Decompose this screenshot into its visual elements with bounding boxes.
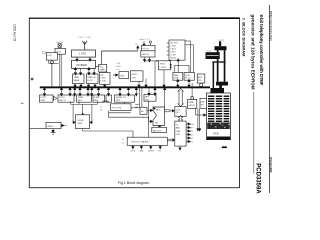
svg-text:LATCH: LATCH — [188, 104, 195, 107]
wire dtmf gen down to output — [82, 129, 84, 131]
box R reset — [55, 48, 66, 54]
pin circle — [50, 61, 53, 64]
wire volume to mux lower input — [109, 116, 149, 118]
svg-text:EEP: EEP — [198, 77, 203, 79]
svg-text:generator and 128 bytes EEPROM: generator and 128 bytes EEPROM — [251, 15, 256, 90]
data latch box below bus — [188, 99, 197, 108]
test box — [159, 61, 171, 70]
svg-text:Product specification: Product specification — [269, 157, 273, 173]
output stage wide box — [127, 137, 167, 145]
svg-text:CPU: CPU — [132, 77, 137, 79]
wire volume box to ML — [131, 107, 140, 109]
title underline rule (rotated) — [253, 92, 255, 174]
signal stub — [186, 123, 189, 125]
svg-text:8-BIT: 8-BIT — [41, 100, 47, 102]
wire bus to mux top — [164, 88, 166, 107]
stubs below P2 — [144, 57, 146, 61]
vref box — [46, 122, 61, 128]
svg-text:KBD: KBD — [201, 101, 206, 103]
wire data latch to connector — [195, 108, 197, 115]
svg-text:VOL CTRL: VOL CTRL — [112, 107, 123, 109]
svg-text:sec: sec — [135, 43, 138, 45]
wire b7 down to output stage — [148, 101, 150, 137]
svg-text:DP: DP — [190, 128, 193, 130]
register box b3 — [77, 95, 92, 102]
time base block — [73, 74, 85, 84]
svg-text:MUTE: MUTE — [148, 150, 154, 152]
bus arrow — [98, 88, 100, 95]
svg-text:DOG: DOG — [88, 80, 93, 82]
box L power-on — [46, 53, 57, 61]
wire ml to mux — [147, 109, 152, 111]
dtmf generator box — [75, 115, 89, 129]
svg-text:IO INT: IO INT — [170, 54, 177, 56]
svg-text:REG: REG — [78, 100, 83, 102]
svg-text:TN: TN — [190, 138, 193, 140]
svg-text:LATCH: LATCH — [59, 99, 66, 102]
svg-text:2 IN B: 2 IN B — [170, 48, 176, 50]
wire to dtmf gen top — [82, 104, 84, 114]
bottom stem — [219, 86, 222, 90]
arrow divider to watchdog — [88, 68, 90, 74]
svg-text:TIME: TIME — [74, 77, 80, 79]
svg-text:Fig.1 Block diagram.: Fig.1 Block diagram. — [118, 181, 150, 185]
arrow rom to bus — [188, 80, 190, 86]
svg-text:MELODY: MELODY — [153, 130, 162, 132]
svg-text:Philips Semiconductors: Philips Semiconductors — [269, 11, 273, 41]
svg-text:P2 I/O: P2 I/O — [143, 48, 149, 50]
stubs below output stage — [132, 145, 134, 148]
svg-text:WATCH: WATCH — [88, 76, 96, 79]
ladder leg right — [224, 50, 226, 81]
svg-text:VO: VO — [190, 142, 193, 144]
svg-text:cntr: cntr — [117, 68, 121, 71]
arrow time base to bus — [74, 84, 76, 87]
svg-text:2 IN C: 2 IN C — [170, 51, 176, 53]
svg-text:CTRL: CTRL — [100, 78, 106, 80]
io stage bottom stub — [179, 146, 181, 149]
arrows into test logic box — [169, 64, 171, 66]
pin stub with circle — [149, 41, 151, 43]
bus arrow — [44, 88, 46, 95]
triangle glyph — [54, 96, 57, 100]
connector base bar — [207, 137, 230, 140]
tiny label under b7 — [135, 104, 138, 105]
svg-text:2AB: 2AB — [139, 149, 143, 152]
wire pair to ML box — [139, 88, 141, 107]
wire b4 down — [96, 101, 98, 104]
bus arrow — [108, 88, 110, 95]
svg-text:4: 4 — [20, 102, 24, 104]
pin circle above data latch — [191, 97, 194, 100]
addr latch box below bus — [200, 98, 208, 108]
tiny label near time base — [31, 78, 34, 80]
svg-text:I/O: I/O — [176, 124, 179, 126]
svg-text:Cable 1 1 4: Cable 1 1 4 — [139, 39, 150, 41]
register box b7 — [144, 95, 156, 102]
svg-text:TEST: TEST — [160, 64, 166, 66]
register box b4 — [93, 95, 105, 102]
wire pair down from kbd box — [197, 108, 199, 130]
bus arrow — [128, 88, 130, 95]
svg-text:OUTPUT STAGES: OUTPUT STAGES — [131, 140, 149, 143]
svg-text:LINE: LINE — [176, 131, 181, 133]
svg-text:7. BLOCK DIAGRAM: 7. BLOCK DIAGRAM — [242, 18, 247, 57]
bus arrow — [135, 88, 137, 95]
rom box — [184, 72, 194, 80]
svg-text:REG: REG — [94, 100, 99, 102]
svg-text:DIVIDER: DIVIDER — [77, 63, 88, 67]
wire to dtmf gen left — [72, 104, 74, 122]
svg-text:MODE CTL: MODE CTL — [116, 97, 127, 99]
bus arrow — [79, 88, 81, 95]
svg-text:2 IN A: 2 IN A — [170, 44, 176, 47]
svg-text:PCD: PCD — [214, 133, 219, 136]
volume box — [111, 104, 132, 111]
wire to test box — [145, 60, 157, 62]
wide double arrow bus to filter box — [178, 91, 180, 105]
svg-text:1 OSC: 1 OSC — [79, 53, 86, 56]
svg-text:TONE: TONE — [78, 97, 84, 99]
watchdog block — [87, 74, 99, 84]
svg-text:MUX: MUX — [156, 109, 161, 111]
svg-text:LATCH: LATCH — [142, 53, 149, 56]
svg-text:8-bit: 8-bit — [117, 65, 121, 68]
bus arrow — [87, 88, 89, 95]
svg-text:VREF --: VREF -- — [47, 126, 55, 128]
arrow ram to bus — [177, 80, 179, 86]
svg-text:XTAL1 XTAL2: XTAL1 XTAL2 — [78, 36, 92, 39]
svg-text:to: to — [100, 106, 103, 109]
wire elbow from box L — [48, 60, 50, 63]
arrow osc to divider — [89, 57, 91, 60]
internal data bus — [40, 86, 210, 88]
svg-text:C2: C2 — [122, 142, 125, 144]
arrow watchdog to bus — [88, 84, 90, 87]
antenna arrow above oscillator — [84, 42, 86, 51]
svg-text:kb: kb — [100, 110, 103, 112]
eeprom box — [197, 74, 205, 83]
connector stripes — [208, 96, 229, 122]
ram box — [173, 72, 183, 80]
svg-text:AND: AND — [176, 127, 181, 130]
svg-text:4TO2: 4TO2 — [130, 150, 136, 152]
io stage tall box — [175, 121, 186, 146]
page header rule (rotated page, right edge) — [269, 5, 271, 193]
svg-text:TMR: TMR — [100, 69, 105, 71]
bus arrow — [61, 88, 63, 95]
svg-text:CNT: CNT — [120, 75, 125, 77]
svg-text:RAM: RAM — [174, 74, 179, 77]
mux selector — [153, 107, 164, 126]
latch box P2 — [141, 51, 155, 57]
wire divider right to timer box — [96, 65, 99, 67]
signal stub — [186, 141, 189, 143]
svg-text:KB INT: KB INT — [170, 57, 177, 59]
svg-text:P1 I/O: P1 I/O — [59, 97, 65, 99]
wire b6 to volume box — [124, 102, 126, 104]
counter box — [119, 72, 129, 79]
svg-text:C1: C1 — [122, 139, 125, 141]
svg-text:BASE: BASE — [74, 79, 80, 82]
mux out to stage — [164, 109, 170, 111]
arrow divider to time base — [74, 68, 76, 74]
svg-text:REG: REG — [116, 100, 121, 102]
pin circle below eeprom — [200, 83, 203, 86]
divider block — [72, 60, 96, 68]
wire volume box down right — [108, 111, 110, 118]
bus arrow — [119, 88, 121, 95]
signal stub — [186, 127, 189, 129]
wire timer up and right — [100, 51, 102, 64]
svg-text:REG: REG — [145, 99, 150, 101]
connector body — [207, 93, 231, 140]
wire collect — [71, 103, 98, 105]
crystal trim symbol — [58, 44, 61, 48]
bus arrow — [69, 88, 71, 95]
bus arrow — [91, 88, 93, 95]
svg-text:GEN: GEN — [78, 123, 83, 125]
wire b3 down — [78, 101, 80, 104]
tick pins on left edge — [167, 42, 169, 44]
register box b5 — [106, 95, 112, 102]
ground under vref — [52, 128, 54, 131]
svg-text:M2: M2 — [190, 135, 194, 137]
svg-text:TN: TN — [158, 150, 161, 152]
svg-text:LOGIC: LOGIC — [160, 67, 167, 69]
svg-text:LOGIC: LOGIC — [100, 80, 107, 82]
register box b2 — [58, 95, 74, 102]
cpu box — [131, 71, 144, 82]
figure frame — [29, 18, 239, 187]
signal stub — [186, 134, 189, 136]
wire pair from box R to bus — [59, 54, 61, 86]
dashes — [64, 125, 65, 127]
interrupt block — [100, 73, 111, 85]
wire listing box bottom to ram box — [177, 60, 179, 73]
latch box P1 — [142, 45, 156, 50]
top plate bar — [215, 46, 227, 50]
arrow interrupt to bus — [104, 84, 106, 86]
crystal body (black) — [206, 52, 220, 59]
bus arrow — [154, 88, 156, 94]
svg-text:8-bit telephony controller wit: 8-bit telephony controller with DTMF — [259, 15, 264, 86]
signal stub — [186, 137, 189, 139]
arrow cpu to bus — [138, 81, 140, 86]
svg-text:3K x 8: 3K x 8 — [185, 78, 192, 80]
figure code dash — [222, 146, 227, 148]
svg-text:ROM: ROM — [185, 75, 190, 77]
svg-text:DTMF: DTMF — [94, 97, 100, 99]
svg-text:8-BIT: 8-BIT — [132, 74, 138, 76]
melody box — [152, 127, 167, 132]
wire frame to vref — [30, 127, 46, 129]
wires from listing box right going down — [185, 40, 191, 42]
ladder leg left — [217, 50, 219, 81]
timer box — [99, 64, 107, 72]
link under crystal — [212, 61, 226, 62]
register box b6 — [115, 95, 135, 102]
svg-text:1996 Apr 03: 1996 Apr 03 — [13, 24, 17, 41]
svg-text:224B: 224B — [174, 78, 179, 80]
svg-text:INT RST: INT RST — [170, 42, 179, 44]
interrupt listing box — [169, 40, 185, 60]
wire pin to bus — [51, 64, 53, 87]
svg-text:P0 I/O: P0 I/O — [41, 97, 47, 99]
svg-text:DTMF: DTMF — [78, 120, 85, 122]
double line to io stage — [167, 138, 172, 140]
svg-text:FLN: FLN — [190, 124, 194, 126]
connector dark band — [207, 123, 230, 130]
register box b1 — [40, 95, 54, 102]
connector cap bar — [211, 88, 225, 93]
svg-text:(3x): (3x) — [117, 63, 121, 65]
open double arrow filter to io stage — [178, 117, 180, 120]
arrow out right — [61, 125, 63, 127]
arrow osc to divider — [76, 57, 78, 60]
crystal left lead down — [213, 63, 215, 88]
bus arrow down into b7 — [148, 88, 150, 94]
wire down from pins — [154, 61, 156, 87]
pin dots under b4 — [103, 101, 104, 102]
bus arrow — [74, 88, 76, 95]
svg-text:PCD3359A: PCD3359A — [255, 163, 261, 194]
pin stub with arrow — [143, 41, 145, 45]
wire to dtmf gen right — [91, 104, 93, 122]
signal stub — [186, 130, 189, 132]
wire with arrow into counter box — [113, 74, 117, 76]
svg-text:DRV: DRV — [176, 134, 181, 136]
wire test box to bus — [163, 70, 165, 87]
wire cnt down to bus — [145, 79, 147, 87]
wire through bus to data latch — [191, 83, 193, 97]
svg-text:DATA: DATA — [188, 101, 194, 104]
oscillator block — [72, 50, 96, 57]
mux input box — [140, 107, 147, 114]
svg-text:M1: M1 — [190, 131, 194, 133]
arrow mux to melody box — [159, 126, 161, 128]
tiny pin label left of box L — [43, 51, 46, 54]
wire b2 down — [70, 101, 72, 104]
bottom plate bar — [216, 82, 228, 86]
filter box — [175, 107, 186, 117]
top stem — [219, 41, 221, 46]
svg-text:POR: POR — [47, 55, 52, 57]
